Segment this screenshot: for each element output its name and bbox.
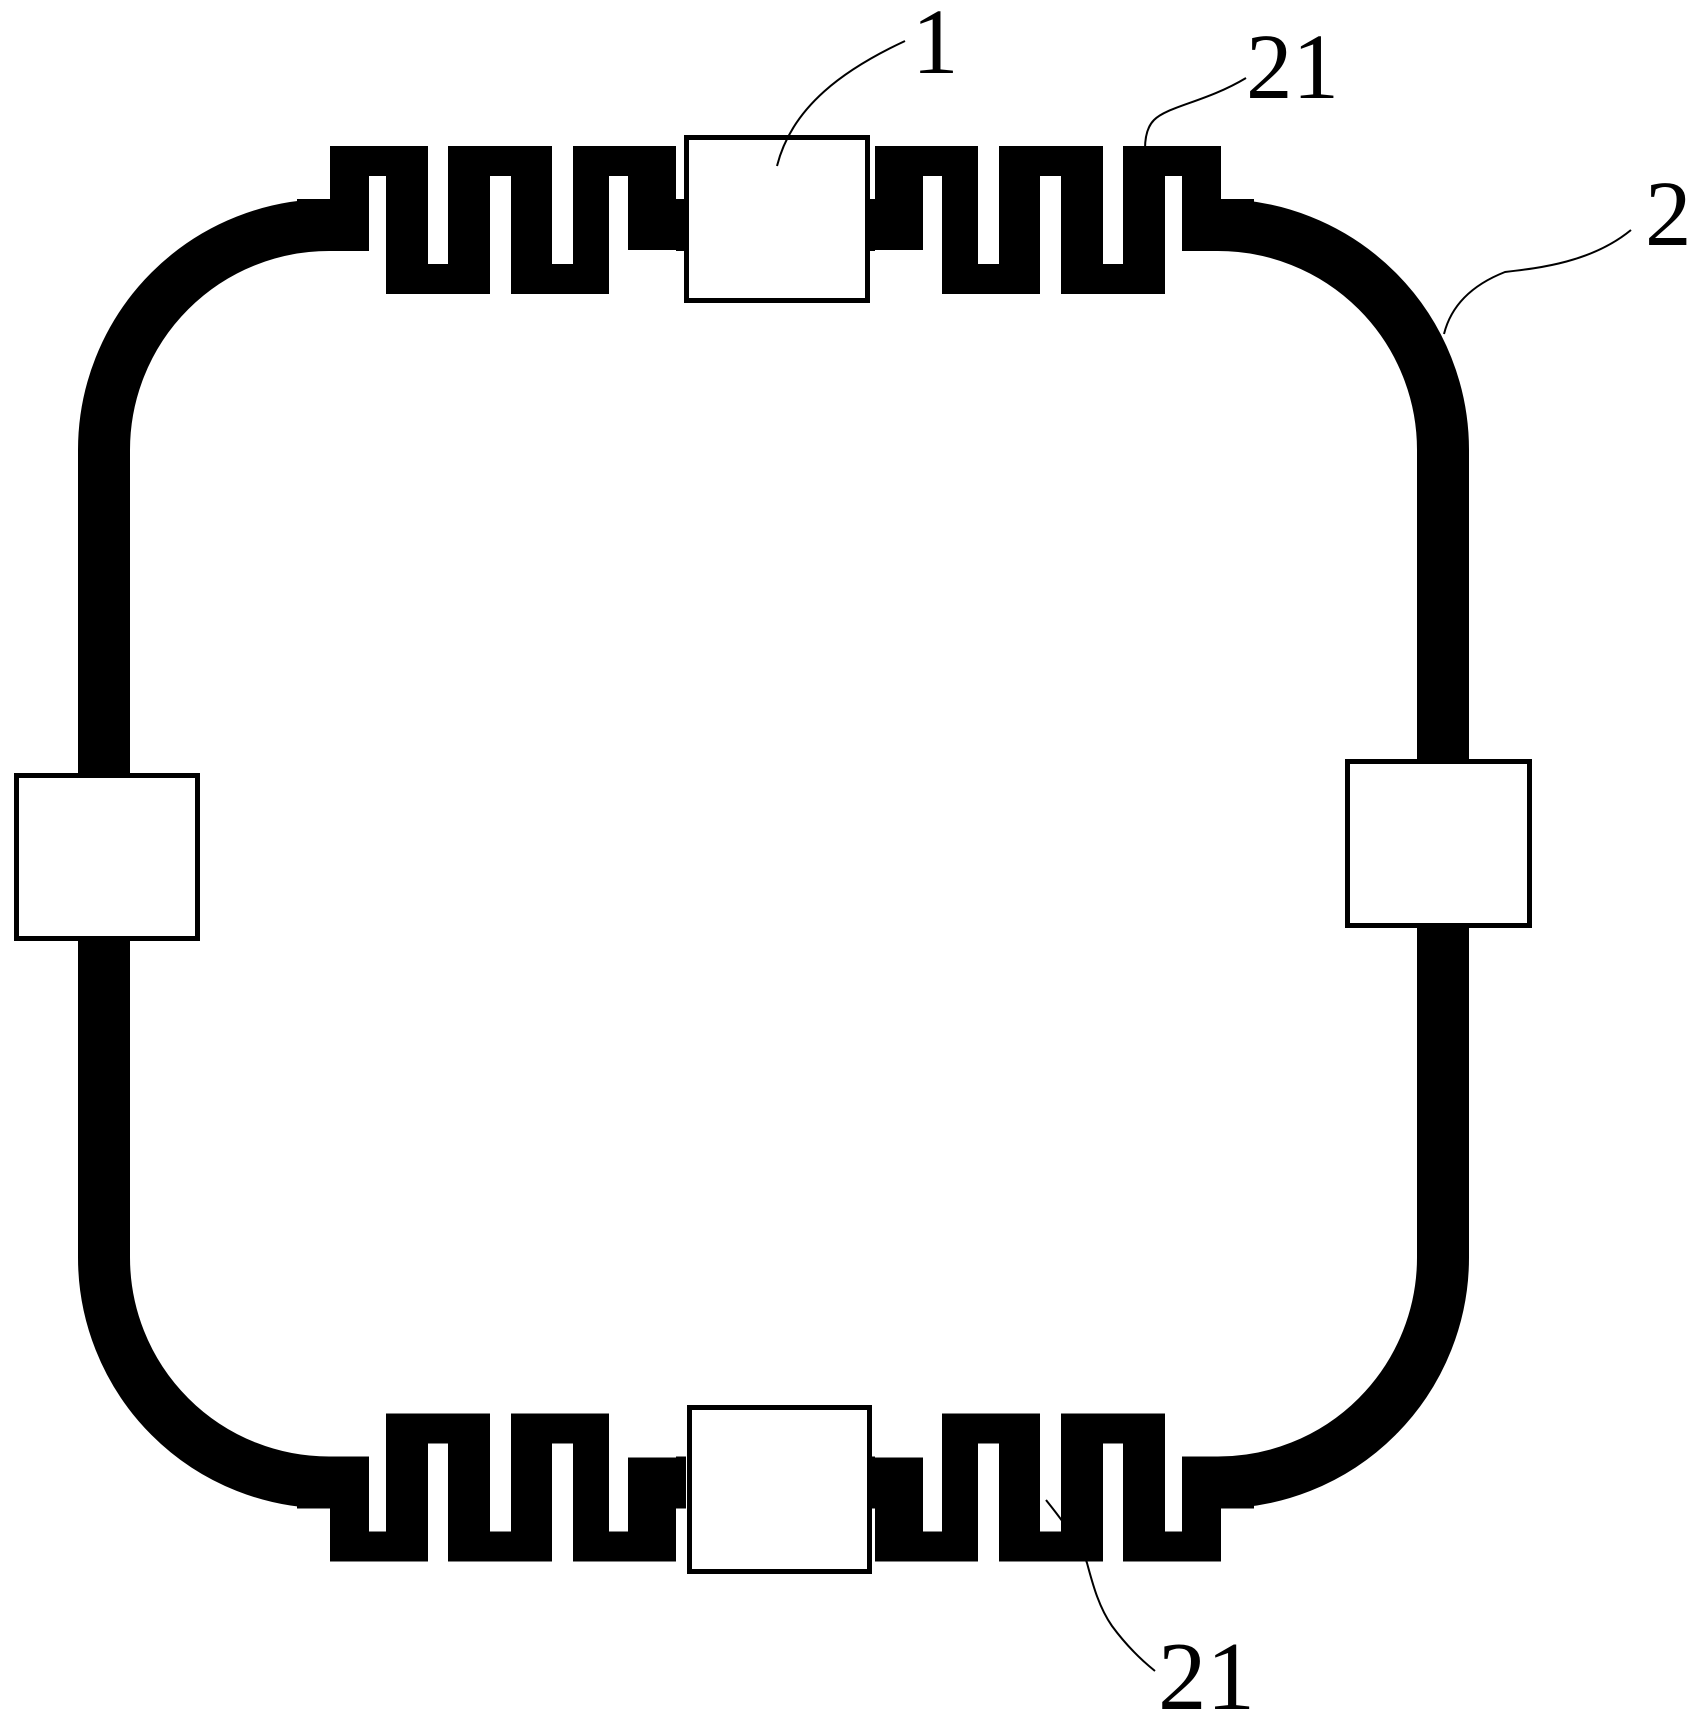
svg-text:21: 21 bbox=[1158, 1623, 1255, 1720]
svg-text:2: 2 bbox=[1645, 163, 1692, 266]
svg-text:1: 1 bbox=[912, 0, 959, 94]
svg-text:21: 21 bbox=[1246, 16, 1339, 119]
